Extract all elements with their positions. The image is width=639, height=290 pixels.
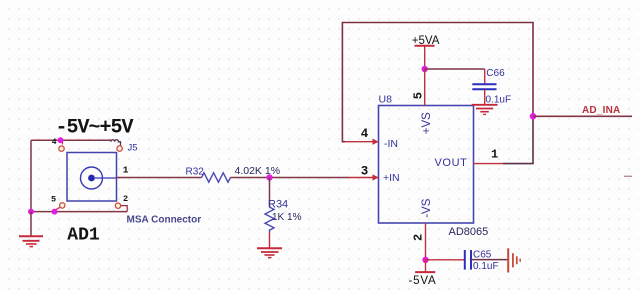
svg-text:R32: R32 (186, 167, 205, 178)
svg-text:-5V~+5V: -5V~+5V (56, 117, 134, 140)
op-amp U1 (AD8065) body (379, 106, 474, 224)
wire R34 tap vertical (269, 178, 271, 208)
svg-text:-5VA: -5VA (409, 275, 437, 287)
pin number 2 (U8, rotated) (411, 234, 425, 241)
label J5 (128, 143, 138, 154)
pin 2 stub (-VS) (425, 223, 427, 260)
junction at pin 4 (58, 137, 64, 143)
label AD1 (67, 226, 100, 246)
pin number 3 (U8) (361, 164, 369, 178)
resistor R32 (202, 173, 231, 182)
wire R34 to ground (269, 233, 271, 248)
svg-text:MSA Connector: MSA Connector (127, 215, 202, 226)
value 4.02K 1% (235, 165, 281, 177)
junction at R34 tap (266, 174, 272, 180)
connector pin 4 hook (59, 141, 64, 152)
pin 5 stub (+VS) (424, 69, 426, 106)
feedback wire -IN up over the top (342, 23, 533, 142)
value 0.1uF (C66) (486, 94, 512, 105)
label MSA Connector (127, 215, 202, 226)
junction at -VS node (422, 257, 428, 263)
label -5V~+5V (56, 117, 134, 140)
stray mark right edge (624, 175, 632, 177)
pin label +VS (rotated) (421, 112, 433, 134)
pin number 5 (U8, rotated) (411, 92, 425, 99)
power -5VA symbol (409, 260, 437, 287)
wire VOUT up to output node (503, 116, 533, 163)
pin number 2 (J5) (123, 194, 128, 204)
capacitor C65 (465, 250, 471, 270)
junction at +VS node (422, 66, 428, 72)
wire -VS node to C65 (426, 259, 465, 261)
wire left vertical of connector loop (30, 140, 32, 211)
pin 3 stub with arrowhead (+IN) (349, 174, 379, 180)
svg-text:4: 4 (361, 127, 369, 141)
svg-text:0.1uF: 0.1uF (486, 94, 512, 105)
net label AD_INA (582, 105, 620, 116)
label AD8065 (449, 226, 489, 238)
svg-text:AD1: AD1 (67, 226, 100, 246)
label U8 (379, 94, 393, 106)
pin label +IN (383, 172, 400, 184)
ground (R34) (257, 248, 282, 257)
svg-text:1K 1%: 1K 1% (272, 212, 302, 223)
wire +VS node to C66 (425, 68, 485, 70)
label R32 (186, 167, 205, 178)
resistor R34 (265, 207, 274, 233)
pin number 4 (U8) (361, 127, 369, 141)
svg-text:C66: C66 (486, 68, 505, 79)
label C66 (486, 68, 505, 79)
label C65 (473, 250, 492, 261)
connector pin 5 hook (55, 203, 66, 212)
wire C65 to side ground (471, 259, 508, 261)
pin number 4 (J5) (52, 138, 57, 147)
svg-text:1: 1 (123, 165, 129, 176)
pin number 1 (U8) (491, 148, 498, 162)
ground (C66) (472, 105, 498, 115)
junction at pin 5 (52, 209, 58, 215)
svg-text:R34: R34 (268, 199, 288, 211)
svg-text:5: 5 (411, 92, 425, 99)
pin label VOUT (435, 157, 468, 169)
pin 1 stub (VOUT) (474, 163, 504, 165)
connector J5 body (67, 153, 117, 202)
svg-text:0.1uF: 0.1uF (473, 261, 499, 272)
svg-text:AD8065: AD8065 (449, 226, 489, 238)
svg-text:2: 2 (123, 194, 128, 204)
value 1K 1% (272, 212, 302, 223)
svg-text:4.02K 1%: 4.02K 1% (235, 165, 281, 177)
svg-text:VOUT: VOUT (435, 157, 468, 169)
svg-text:4: 4 (52, 138, 57, 147)
pin number 1 (J5) (123, 165, 129, 176)
svg-text:+IN: +IN (383, 172, 400, 184)
svg-text:J5: J5 (128, 143, 138, 154)
wire AD_INA (533, 115, 632, 117)
junction at loop corner (28, 209, 34, 215)
svg-text:3: 3 (361, 164, 369, 178)
svg-text:AD_INA: AD_INA (582, 105, 620, 116)
junction at output node (530, 113, 537, 120)
label R34 (268, 199, 288, 211)
pin label -VS (rotated) (421, 198, 433, 218)
svg-text:-VS: -VS (421, 198, 433, 218)
svg-text:5: 5 (51, 195, 56, 205)
value 0.1uF (C65) (473, 261, 499, 272)
svg-text:2: 2 (411, 234, 425, 241)
power +5VA symbol (412, 35, 440, 69)
pin number 5 (J5) (51, 195, 56, 205)
ground (AD1 connector) (19, 212, 43, 247)
ground (C65, rotated) (508, 248, 520, 272)
svg-text:1: 1 (491, 148, 498, 162)
wire top of connector loop (31, 139, 111, 141)
svg-text:U8: U8 (379, 94, 393, 106)
capacitor C3 (C66) (472, 69, 496, 104)
connector pin 1 stub (inside red) (117, 177, 202, 179)
pin 4 stub with arrowhead (-IN) (345, 139, 379, 145)
connector pin 3 hook (111, 140, 123, 152)
pin label -IN (384, 138, 398, 150)
wire bottom of connector loop (31, 211, 127, 213)
svg-text:+VS: +VS (421, 112, 433, 134)
svg-text:-IN: -IN (384, 138, 398, 150)
wire R32 to +IN (231, 177, 349, 179)
connector pin 2 hook (115, 203, 127, 212)
